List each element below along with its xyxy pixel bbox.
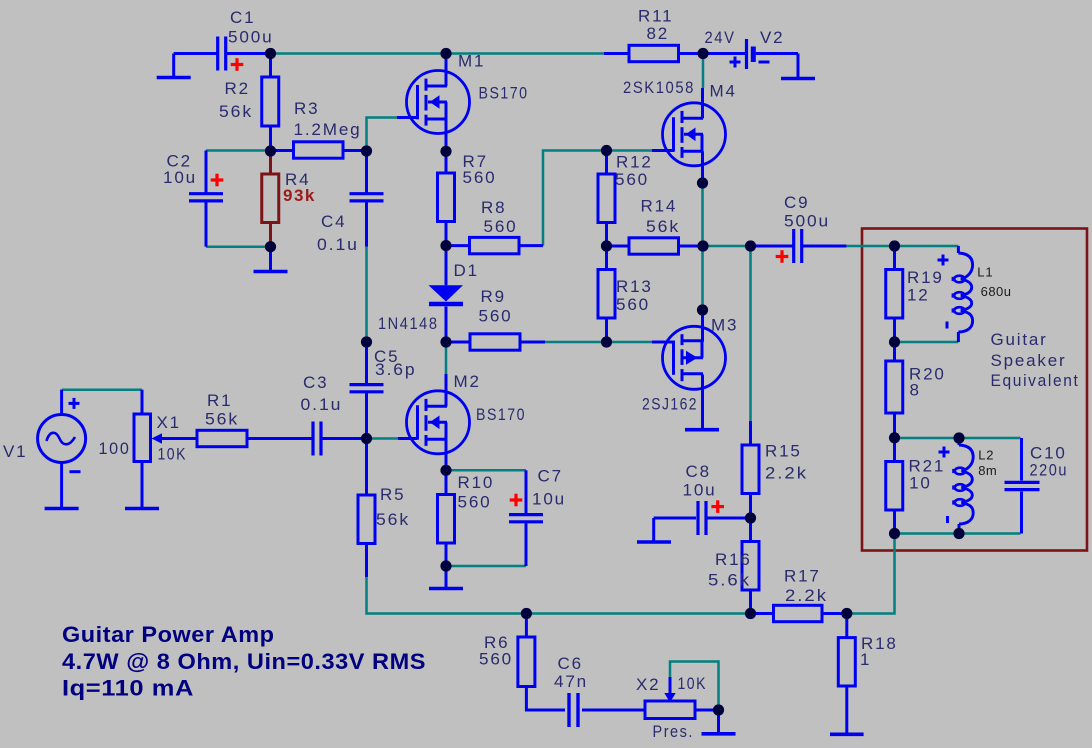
svg-text:560: 560 (479, 307, 513, 326)
svg-text:R8: R8 (481, 198, 506, 217)
svg-text:100: 100 (99, 439, 131, 458)
svg-text:560: 560 (615, 170, 649, 189)
svg-text:R9: R9 (481, 287, 506, 306)
svg-text:82: 82 (647, 24, 670, 43)
svg-text:680u: 680u (981, 284, 1012, 299)
svg-text:R12: R12 (616, 153, 653, 172)
svg-text:47n: 47n (554, 672, 588, 691)
svg-text:Speaker: Speaker (991, 351, 1067, 370)
svg-text:24V: 24V (705, 28, 736, 47)
svg-text:C6: C6 (558, 654, 583, 673)
svg-text:500u: 500u (228, 28, 274, 47)
svg-text:BS170: BS170 (476, 405, 526, 424)
svg-text:R14: R14 (641, 197, 678, 216)
svg-text:5.6k: 5.6k (708, 571, 751, 590)
svg-text:560: 560 (463, 168, 497, 187)
svg-text:1N4148: 1N4148 (378, 314, 439, 333)
svg-text:Pres.: Pres. (653, 722, 695, 741)
svg-text:10K: 10K (158, 445, 188, 464)
svg-text:R16: R16 (715, 550, 752, 569)
svg-text:560: 560 (479, 650, 513, 669)
svg-text:560: 560 (458, 493, 492, 512)
svg-text:R11: R11 (638, 7, 673, 26)
svg-text:1: 1 (860, 650, 871, 669)
svg-text:Guitar Power Amp: Guitar Power Amp (62, 622, 275, 647)
svg-text:V1: V1 (3, 442, 27, 461)
svg-text:10u: 10u (163, 168, 197, 187)
svg-text:2.2k: 2.2k (765, 464, 808, 483)
svg-text:M4: M4 (710, 82, 737, 101)
svg-text:4.7W @ 8 Ohm, Uin=0.33V RMS: 4.7W @ 8 Ohm, Uin=0.33V RMS (62, 649, 426, 674)
svg-text:10K: 10K (678, 674, 708, 693)
svg-text:500u: 500u (784, 212, 830, 231)
svg-text:0.1u: 0.1u (317, 235, 359, 254)
svg-text:10u: 10u (532, 490, 566, 509)
svg-text:8m: 8m (978, 463, 997, 478)
svg-text:D1: D1 (454, 261, 479, 280)
svg-text:R3: R3 (294, 99, 319, 118)
svg-text:X2: X2 (636, 675, 660, 694)
svg-text:2.2k: 2.2k (785, 586, 828, 605)
svg-text:BS170: BS170 (479, 84, 529, 103)
svg-text:Guitar: Guitar (991, 330, 1048, 349)
svg-text:12: 12 (907, 286, 930, 305)
svg-text:10u: 10u (683, 481, 717, 500)
svg-text:C8: C8 (686, 462, 711, 481)
svg-text:C3: C3 (303, 373, 328, 392)
svg-text:R1: R1 (207, 391, 232, 410)
svg-text:M1: M1 (458, 52, 485, 71)
svg-text:56k: 56k (376, 510, 410, 529)
svg-text:560: 560 (484, 217, 518, 236)
svg-text:560: 560 (616, 295, 650, 314)
svg-text:2SJ162: 2SJ162 (642, 395, 698, 414)
svg-text:3.6p: 3.6p (375, 360, 417, 379)
svg-text:220u: 220u (1030, 461, 1069, 480)
svg-text:C4: C4 (321, 212, 346, 231)
svg-text:L1: L1 (977, 264, 993, 279)
svg-text:C7: C7 (538, 467, 563, 486)
svg-text:M2: M2 (454, 372, 481, 391)
svg-text:V2: V2 (760, 28, 784, 47)
svg-text:R15: R15 (765, 442, 802, 461)
svg-text:1.2Meg: 1.2Meg (294, 120, 362, 139)
svg-text:56k: 56k (205, 410, 239, 429)
svg-text:R13: R13 (616, 277, 653, 296)
svg-text:Equivalent: Equivalent (991, 371, 1080, 390)
svg-text:0.1u: 0.1u (301, 395, 343, 414)
svg-text:10: 10 (909, 474, 932, 493)
svg-text:R19: R19 (907, 268, 944, 287)
svg-text:M3: M3 (711, 316, 738, 335)
svg-text:R17: R17 (784, 567, 821, 586)
svg-text:56k: 56k (219, 102, 253, 121)
svg-text:93k: 93k (283, 186, 316, 205)
svg-text:2SK1058: 2SK1058 (623, 78, 695, 97)
svg-text:X1: X1 (157, 413, 181, 432)
svg-text:56k: 56k (646, 217, 680, 236)
svg-text:R5: R5 (380, 485, 405, 504)
svg-text:C9: C9 (784, 193, 809, 212)
svg-text:R2: R2 (225, 79, 250, 98)
svg-text:Iq=110 mA: Iq=110 mA (62, 676, 194, 701)
svg-text:R10: R10 (458, 473, 495, 492)
svg-text:8: 8 (910, 381, 921, 400)
svg-text:L2: L2 (978, 448, 994, 463)
svg-text:C1: C1 (230, 8, 255, 27)
